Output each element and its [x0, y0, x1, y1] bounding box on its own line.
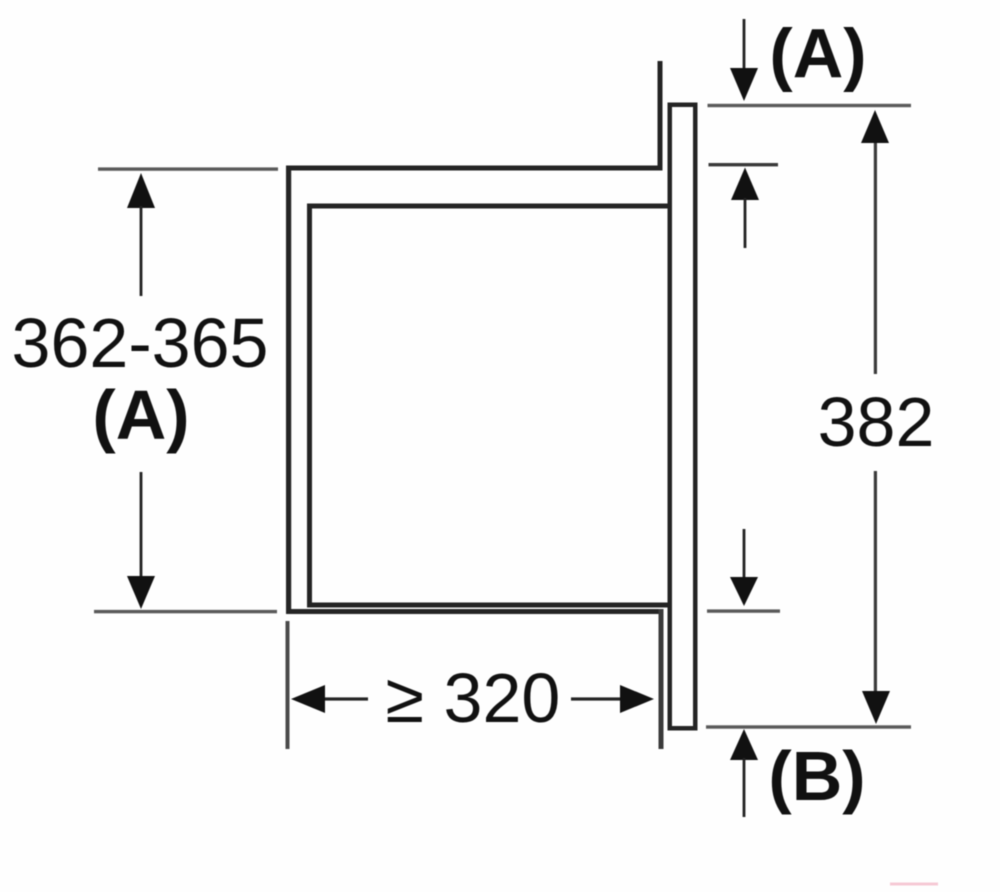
- svg-text:(A): (A): [92, 376, 189, 454]
- svg-text:(A): (A): [769, 15, 866, 93]
- svg-text:362-365: 362-365: [12, 304, 269, 382]
- svg-text:(B): (B): [768, 737, 865, 815]
- svg-text:382: 382: [818, 383, 935, 461]
- svg-text:≥ 320: ≥ 320: [386, 659, 561, 737]
